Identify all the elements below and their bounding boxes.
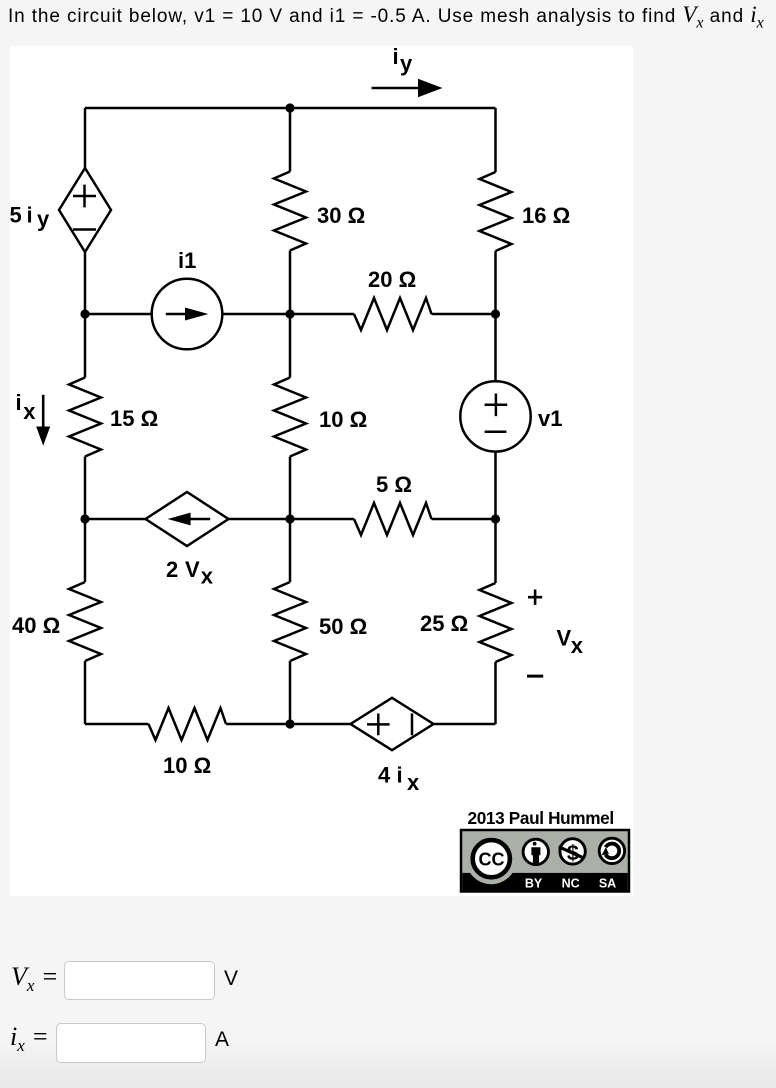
CC license badge <box>461 830 629 892</box>
resistor R10 10ohm vertical <box>274 378 306 457</box>
junction node row2 left <box>80 309 89 318</box>
junction node row3 right <box>491 514 500 523</box>
answer Vx input box <box>64 961 215 1000</box>
resistor R30 30ohm vertical <box>274 172 306 251</box>
svg-text:30 Ω: 30 Ω <box>317 203 365 228</box>
resistor R5 5ohm horizontal <box>354 503 432 535</box>
svg-text:2: 2 <box>166 557 178 582</box>
wire middle column row2 to 10ohm <box>289 314 292 378</box>
svg-text:5: 5 <box>10 203 22 228</box>
bar inside 4ix <box>411 713 414 735</box>
minus sign inside v1 <box>485 431 507 434</box>
label minus Vx <box>527 675 543 678</box>
wire middle column 10ohm to row3 <box>289 457 292 520</box>
badge CC circle halo <box>466 833 517 884</box>
wire middle column top to 30ohm <box>289 108 292 172</box>
junction node row2 middle <box>285 309 294 318</box>
svg-text:x: x <box>407 770 420 795</box>
wire middle column row3 to 50ohm <box>289 519 292 582</box>
svg-text:20 Ω: 20 Ω <box>368 267 416 292</box>
svg-text:V: V <box>557 626 572 651</box>
wire row2 left segment to i1 <box>85 313 152 316</box>
svg-text:i1: i1 <box>178 248 196 273</box>
wire left column below 5iy to row2 <box>84 252 87 378</box>
wire left column row3 to 40ohm <box>84 519 87 582</box>
svg-text:40 Ω: 40 Ω <box>12 613 60 638</box>
arrow inside 2Vx pointing left <box>186 518 210 520</box>
wire row3 left to 2Vx diamond <box>85 518 146 521</box>
wire top rail <box>85 107 496 110</box>
wire row3 diamond to middle <box>229 518 355 521</box>
title <box>8 2 764 28</box>
current arrow iy <box>372 87 423 90</box>
svg-text:x: x <box>201 564 214 589</box>
resistor R40 40ohm vertical <box>69 582 101 661</box>
svg-text:y: y <box>400 51 413 76</box>
badge CC circle <box>473 840 510 877</box>
junction node bottom middle <box>285 719 294 728</box>
svg-text:25 Ω: 25 Ω <box>420 611 468 636</box>
arrow inside i1 <box>166 313 190 315</box>
wire right column row2 to v1 <box>494 314 497 381</box>
svg-text:BY: BY <box>525 876 543 890</box>
plus sign inside 4ix <box>367 714 390 736</box>
badge BY NC SA text <box>525 876 616 890</box>
wire row2 after 20ohm to right <box>432 313 496 316</box>
badge NC icon <box>558 839 585 866</box>
svg-text:16 Ω: 16 Ω <box>522 203 570 228</box>
current arrow ix <box>42 395 45 429</box>
minus sign inside 5iy <box>73 228 96 231</box>
svg-text:x: x <box>23 399 36 424</box>
wire left column 40ohm to bottom <box>84 661 87 724</box>
wire bottom 4ix to right <box>434 723 496 726</box>
current source U-i1 circle <box>152 279 223 350</box>
wire right column 25ohm to bottom <box>494 662 497 724</box>
wire right column 16ohm to row2 <box>494 251 497 314</box>
junction node top middle <box>285 103 294 112</box>
dependent source 4ix diamond <box>351 698 434 750</box>
label plus Vx <box>528 590 542 605</box>
resistor R50 50ohm vertical <box>274 582 306 661</box>
svg-text:10 Ω: 10 Ω <box>319 407 367 432</box>
svg-text:4: 4 <box>378 763 391 788</box>
answer ix input box <box>56 1023 206 1063</box>
voltage source v1 circle <box>460 381 530 451</box>
wire middle column 50ohm to bottom <box>289 661 292 724</box>
junction node row3 left <box>80 514 89 523</box>
wire middle column 30ohm to row2 <box>289 251 292 315</box>
resistor R25 25ohm vertical <box>480 583 512 662</box>
svg-text:2013 Paul Hummel: 2013 Paul Hummel <box>468 808 614 828</box>
wire right column v1 to row3 <box>494 452 497 519</box>
svg-text:NC: NC <box>562 876 580 890</box>
resistor R20 20ohm horizontal <box>354 298 432 330</box>
wire row2 i1 to middle <box>222 313 354 316</box>
junction node row3 middle <box>285 514 294 523</box>
resistor R16 16ohm vertical <box>480 172 512 251</box>
wire row3 after 5ohm to right <box>432 518 496 521</box>
answer Vx row <box>11 962 58 996</box>
wire bottom left to 10ohm <box>85 723 149 726</box>
svg-text:i: i <box>397 763 403 788</box>
wire left column row2-row3 below 15ohm <box>84 457 87 520</box>
plus sign inside 5iy <box>73 185 96 208</box>
svg-text:V: V <box>185 557 200 582</box>
svg-text:i: i <box>16 390 22 415</box>
resistor R15 15ohm vertical <box>69 378 101 457</box>
plus sign inside v1 <box>485 394 508 417</box>
svg-text:SA: SA <box>599 876 616 890</box>
wire bottom 10ohm to middle <box>226 723 351 726</box>
dependent source 5iy diamond <box>59 168 111 252</box>
wire right column top to 16ohm <box>494 108 497 172</box>
dependent source 2Vx diamond <box>146 492 229 546</box>
badge black band <box>462 873 627 891</box>
badge SA icon <box>599 838 624 863</box>
answer ix row <box>10 1022 49 1056</box>
svg-text:15 Ω: 15 Ω <box>110 406 158 431</box>
wire left column upper <box>84 108 87 168</box>
svg-text:50 Ω: 50 Ω <box>319 614 367 639</box>
junction node row2 right <box>491 309 500 318</box>
svg-text:y: y <box>37 207 50 232</box>
svg-text:x: x <box>571 633 584 658</box>
badge BY icon <box>523 839 548 864</box>
resistor R10b 10ohm horizontal bottom <box>149 708 227 740</box>
svg-text:10 Ω: 10 Ω <box>163 753 211 778</box>
svg-text:i: i <box>393 46 399 69</box>
svg-text:CC: CC <box>479 849 505 869</box>
svg-text:i: i <box>27 203 33 228</box>
svg-text:v1: v1 <box>538 406 562 431</box>
wire right column row3 to 25ohm <box>494 519 497 583</box>
svg-text:5 Ω: 5 Ω <box>376 472 412 497</box>
